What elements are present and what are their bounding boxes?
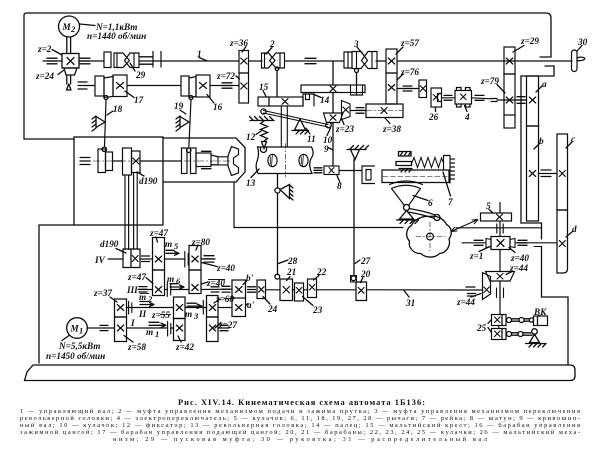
machine frame top-left outline bbox=[24, 13, 551, 139]
svg-text:m: m bbox=[167, 274, 174, 284]
lever 19 pivot hatch bbox=[176, 116, 180, 131]
label z=58 leader bbox=[124, 336, 133, 343]
clutch m3 arrow bbox=[187, 303, 202, 308]
drum c bbox=[557, 134, 568, 210]
collet closer flange left bbox=[182, 148, 188, 174]
label 18 leader bbox=[107, 111, 113, 115]
label 17 leader bbox=[125, 91, 134, 98]
worm right flange bbox=[510, 239, 515, 248]
svg-text:a: a bbox=[542, 79, 547, 89]
label 24 leader bbox=[263, 297, 270, 305]
label z=47 top leader bbox=[156, 237, 158, 242]
gear block z=72 bbox=[239, 73, 249, 103]
lever 18 pivot hatch bbox=[92, 116, 96, 131]
clutch m5 ticks bbox=[185, 252, 188, 268]
wire bar 14 to bevel z=23 bbox=[332, 93, 334, 114]
svg-text:1: 1 bbox=[155, 329, 159, 339]
shaft 2 stub bbox=[87, 85, 95, 87]
drum b cross bbox=[529, 171, 535, 177]
svg-text:I: I bbox=[130, 318, 135, 328]
camshaft between cams 25 bbox=[498, 326, 500, 329]
upper roller bbox=[507, 318, 512, 323]
wires bar 15 to drum bbox=[281, 106, 287, 147]
machine frame inner horizontal bbox=[234, 227, 403, 229]
label 19 leader bbox=[180, 110, 186, 114]
svg-text:z=1: z=1 bbox=[469, 251, 483, 261]
rack 7 centerline bbox=[383, 176, 448, 178]
spindle pulley right bbox=[106, 152, 113, 171]
cam 22 bbox=[308, 279, 317, 298]
roller 28 pin bbox=[275, 274, 280, 279]
rod 8 left bearing bbox=[314, 168, 322, 173]
worm gearbox cross bbox=[67, 58, 74, 65]
clutch 2 shifter pin bbox=[275, 67, 279, 71]
cam 25 upper box bbox=[492, 315, 507, 326]
gear block z=57 bbox=[386, 49, 397, 73]
svg-text:12: 12 bbox=[246, 132, 256, 142]
label m2 overline bbox=[140, 293, 150, 295]
shaft bevel to z=38 bbox=[350, 110, 366, 112]
drum 16 left section bbox=[181, 76, 189, 96]
handle 30 knob bbox=[577, 57, 585, 61]
label d190 upper leader bbox=[137, 172, 144, 176]
shaft 1 into gear z=57 bbox=[376, 60, 386, 62]
bar 14 cross bbox=[330, 86, 336, 92]
shaft II clutch ticks bbox=[129, 302, 132, 315]
label z=80 leader bbox=[196, 245, 198, 250]
gear z=76 cross bbox=[388, 85, 395, 91]
worm left flange bbox=[486, 239, 491, 248]
collet sleeve bbox=[196, 153, 211, 167]
lever 11 arm bbox=[264, 111, 329, 128]
drum 17 left section bbox=[95, 76, 104, 96]
drum 17 middle slanted section bbox=[104, 77, 113, 98]
svg-text:z=38: z=38 bbox=[382, 124, 401, 134]
svg-text:IV: IV bbox=[94, 255, 106, 265]
drum a bbox=[527, 76, 539, 126]
slider bracket bbox=[362, 166, 375, 184]
shaft 2 to gear z=72 bbox=[210, 85, 239, 87]
hanger above bar 14 bbox=[332, 61, 334, 85]
maltese 26 body bbox=[431, 88, 442, 107]
tassel below z=24 bbox=[67, 84, 72, 90]
lever 19 end pin bbox=[187, 148, 191, 152]
label 25 leaders bbox=[488, 320, 492, 333]
drum c cross bbox=[559, 171, 565, 177]
turret stem wire bbox=[233, 182, 235, 228]
rack 7 end cap bbox=[444, 156, 455, 184]
cam 25 lower box bbox=[492, 329, 507, 340]
cam wheel hub bbox=[427, 233, 434, 240]
bevel z=44 left cross bbox=[484, 287, 490, 293]
spline end ticks bbox=[153, 52, 161, 68]
gear block z=55 bbox=[174, 297, 186, 319]
drum d cross bbox=[559, 241, 565, 247]
headstock box bbox=[74, 137, 163, 225]
crank link band bbox=[408, 209, 436, 219]
lever 19 pin bbox=[189, 96, 193, 100]
gear z=79 hub tick bbox=[504, 114, 515, 116]
cam 25 lower divider bbox=[501, 329, 503, 340]
machine frame stub at shaft d bbox=[534, 246, 542, 248]
svg-text:1: 1 bbox=[197, 49, 202, 59]
shaft 31 right bearing bbox=[466, 287, 476, 296]
cam 25 upper cross bbox=[495, 317, 501, 323]
svg-text:3: 3 bbox=[193, 311, 199, 321]
label 10 leader bbox=[327, 128, 331, 136]
label a' leader bbox=[246, 304, 249, 306]
spindle d190 cross bbox=[133, 158, 139, 164]
camshaft to bevel z=44 bbox=[499, 250, 501, 272]
shaft III right bearings bbox=[211, 286, 230, 292]
rod 8 box bbox=[324, 166, 339, 175]
svg-text:ВК: ВК bbox=[533, 307, 547, 317]
rod 8 shaft to slider bbox=[339, 170, 362, 172]
label 6 leader bbox=[413, 196, 428, 201]
svg-text:z=36: z=36 bbox=[229, 38, 248, 48]
lever 19 pivot bbox=[180, 117, 189, 128]
svg-text:z=27: z=27 bbox=[218, 320, 237, 330]
upper link pin bbox=[519, 318, 524, 323]
shaft 31 right end bbox=[464, 289, 483, 291]
cam 5 cross bbox=[497, 214, 503, 220]
bearing marks bbox=[444, 95, 452, 100]
label z=40 leader bbox=[509, 248, 515, 253]
svg-text:z=42: z=42 bbox=[175, 342, 194, 352]
shaft IV left stub bbox=[108, 258, 123, 260]
bearing left of z=2 bbox=[47, 58, 57, 64]
svg-text:z=24: z=24 bbox=[35, 71, 54, 81]
drum d bbox=[557, 210, 568, 273]
gear z=27 cross bbox=[209, 325, 215, 331]
spline shaft after 29 bbox=[139, 57, 161, 64]
bearing double mark bbox=[491, 99, 497, 102]
gear z=40 lower cross bbox=[192, 285, 198, 291]
bearing left of drum 17 bbox=[78, 82, 87, 89]
bearing on shaft IV bbox=[142, 256, 150, 262]
bearing marks right of 4 bbox=[475, 95, 484, 100]
bar 15 divider bbox=[268, 97, 270, 106]
label z=44 upper leader bbox=[506, 272, 512, 275]
shaft b to c bbox=[539, 173, 558, 175]
worm gearbox z=1 z=40 bbox=[491, 237, 510, 250]
svg-text:z=47: z=47 bbox=[149, 228, 168, 238]
drum 21 cross bbox=[283, 287, 290, 294]
gear a' cross bbox=[236, 305, 243, 311]
motor M1 leader bbox=[62, 336, 69, 341]
shaft 1 left stub bbox=[43, 60, 62, 62]
svg-text:b: b bbox=[539, 136, 544, 146]
shaft 2 between drums bbox=[127, 85, 181, 87]
cam 25 upper divider bbox=[501, 315, 503, 326]
bevel z=23 vertical bbox=[342, 101, 351, 120]
svg-text:m: m bbox=[165, 239, 172, 249]
bearing right of b' bbox=[248, 287, 256, 292]
shaft II to z=68 bbox=[185, 307, 207, 309]
wire clutch 2 to bar 15 bbox=[276, 71, 278, 97]
gear block z=80 bbox=[189, 246, 201, 271]
bar 15 cross bbox=[282, 99, 288, 105]
crank support triangle bbox=[351, 150, 360, 160]
lever 19 rod bbox=[189, 100, 191, 148]
shaft 4 to z=79 bbox=[472, 98, 492, 99]
gear z=38 cross bbox=[381, 108, 387, 114]
drum 13 centerline bbox=[285, 144, 287, 178]
pinion gear bbox=[419, 80, 427, 98]
label 12 leader bbox=[256, 131, 261, 135]
rack spring hatch below bbox=[399, 169, 412, 173]
svg-text:18: 18 bbox=[113, 104, 123, 114]
svg-text:1 — управляющий вал; 2 — муфта: 1 — управляющий вал; 2 — муфта управлени… bbox=[20, 408, 580, 415]
label 4 leader bbox=[465, 106, 468, 112]
shaft 31 long segment bbox=[317, 289, 357, 291]
cam 23 bbox=[295, 283, 304, 301]
svg-text:Рис. XIV.14. Кинематическая сх: Рис. XIV.14. Кинематическая схема автома… bbox=[178, 398, 425, 407]
label d leader bbox=[566, 231, 573, 237]
svg-text:z=29: z=29 bbox=[520, 36, 539, 46]
svg-text:z=57: z=57 bbox=[400, 38, 419, 48]
svg-text:4: 4 bbox=[464, 112, 470, 122]
gear block z=58 bbox=[115, 317, 127, 342]
label z=47 left leader bbox=[146, 278, 153, 284]
bevel z=23 horizontal bbox=[324, 113, 344, 123]
label 14 leader bbox=[313, 94, 321, 98]
svg-text:13: 13 bbox=[246, 178, 256, 188]
drum 13 window right shading bbox=[301, 155, 303, 165]
worm gearbox cross bbox=[497, 240, 504, 247]
label z=36 leader bbox=[242, 47, 246, 53]
rack 7 body bbox=[382, 170, 449, 183]
control rod with arrow to wheel bbox=[456, 227, 542, 229]
fixator 12 wall hatch bbox=[250, 117, 275, 121]
svg-text:25: 25 bbox=[476, 323, 487, 333]
clutch m1 arrow bbox=[149, 322, 166, 327]
svg-text:n=1450 об/мин: n=1450 об/мин bbox=[46, 351, 105, 361]
bearing between z=79 and a bbox=[517, 97, 525, 104]
spindle left bearing bbox=[80, 158, 90, 165]
lower roller bbox=[507, 332, 512, 337]
label z=29 leader bbox=[513, 46, 524, 53]
gear block z=37 bbox=[115, 299, 127, 317]
clutch m2 arrow bbox=[140, 302, 154, 307]
gear z=57 cross bbox=[388, 58, 395, 64]
cam 23 cross bbox=[296, 288, 302, 294]
gear z=38 centerline bbox=[367, 110, 402, 112]
shaft II line bbox=[127, 307, 174, 309]
camshaft below bevel bbox=[499, 281, 501, 315]
belt to lower pulley bbox=[125, 173, 137, 250]
shaft 26 to 4 bbox=[442, 97, 456, 99]
switch BK box detail bbox=[537, 316, 539, 326]
rack spring bar bbox=[396, 162, 412, 166]
label z=40 first leader bbox=[202, 263, 218, 267]
svg-text:b': b' bbox=[246, 273, 254, 283]
gear z=36 cross bbox=[241, 58, 247, 64]
shaft I line bbox=[127, 327, 174, 329]
wire clutch 3 to bar 14 bbox=[356, 73, 358, 85]
label 30 leader bbox=[577, 46, 582, 52]
svg-text:n=1440 об/мин: n=1440 об/мин bbox=[87, 31, 146, 41]
svg-text:z=76: z=76 bbox=[400, 67, 419, 77]
crank support hatch bbox=[347, 146, 369, 150]
maltese 26 cross bbox=[433, 95, 438, 101]
lever 18 pivot bbox=[96, 117, 105, 128]
svg-text:z=47: z=47 bbox=[127, 272, 146, 282]
finger bar 14 bbox=[301, 85, 365, 93]
gear z=58 cross bbox=[117, 325, 123, 331]
drum 13 window right bbox=[299, 154, 308, 166]
gear z=68 cross bbox=[209, 305, 215, 311]
sector pivot bbox=[404, 205, 410, 211]
lower pulley divider bbox=[130, 249, 132, 268]
label b leader bbox=[534, 143, 540, 149]
label z=38 leader bbox=[385, 118, 390, 124]
clutch m6 arrow bbox=[170, 284, 184, 289]
shaft I from M1 bbox=[87, 327, 114, 329]
gear z=47 lower cross bbox=[155, 287, 161, 293]
cam 5 bbox=[481, 213, 512, 221]
camshaft coupling ticks bbox=[497, 287, 504, 299]
label 2 leader bbox=[266, 48, 272, 55]
clutch 3 collar bbox=[344, 52, 352, 68]
label 11 leader bbox=[306, 128, 310, 134]
clutch 3 shifter pin bbox=[355, 69, 359, 73]
rack spring bbox=[412, 158, 444, 168]
switch BK roller bbox=[529, 318, 533, 322]
lower link bbox=[512, 333, 533, 335]
worm shaft right to bar d bbox=[515, 242, 557, 244]
shaft III right segment bbox=[201, 288, 232, 290]
machine frame ledge to headstock bbox=[24, 138, 74, 140]
bevel z=44 upper cross bbox=[497, 274, 503, 280]
clutch m6 ticks bbox=[167, 282, 170, 297]
label z=24 leader bbox=[58, 70, 64, 75]
shaft IV between bbox=[165, 258, 185, 260]
svg-text:26: 26 bbox=[428, 112, 439, 122]
collet bars bbox=[218, 157, 228, 165]
svg-text:27: 27 bbox=[360, 256, 371, 266]
gear 24 cross bbox=[259, 287, 265, 293]
rod 8 box cross bbox=[329, 168, 334, 174]
drum pivot circle bbox=[275, 188, 280, 193]
label 27 leader bbox=[355, 260, 360, 264]
cam wheel centerlines bbox=[416, 222, 445, 251]
collet gripper head bbox=[228, 147, 239, 176]
svg-text:30: 30 bbox=[577, 37, 588, 47]
label z=40 second leader bbox=[202, 282, 209, 284]
svg-text:m: m bbox=[146, 327, 153, 337]
handle 30 grip bbox=[572, 50, 578, 72]
gear z=29 cross bbox=[506, 58, 513, 64]
svg-text:5: 5 bbox=[486, 201, 491, 211]
lever pivot support bbox=[526, 334, 547, 347]
svg-text:z=79: z=79 bbox=[480, 76, 499, 86]
drum 16 middle slanted section bbox=[189, 77, 196, 98]
lever 11 pivot hatch bbox=[292, 131, 309, 135]
label z=37 leader bbox=[110, 297, 117, 302]
svg-text:M: M bbox=[70, 324, 80, 334]
worm shaft left bearing bbox=[474, 240, 483, 245]
crank pin bbox=[434, 215, 440, 221]
shaft 1 segment to pulley bbox=[79, 60, 104, 62]
fixator 12 pin bbox=[262, 142, 267, 149]
clutch m1 ticks bbox=[168, 322, 171, 337]
roller 27 holder bbox=[351, 276, 357, 283]
shaft 1 to clutch 2 bbox=[249, 60, 263, 62]
shaft 1 segment to clutch 3 bbox=[285, 60, 345, 62]
label z=79 leader bbox=[497, 85, 505, 94]
bevel z=23 vertical cross bbox=[343, 107, 349, 113]
lever pivot circle bbox=[532, 329, 538, 335]
svg-text:ный вал; 10 — кулачок; 12 — фи: ный вал; 10 — кулачок; 12 — фиксатор; 13… bbox=[20, 422, 580, 429]
label 31 leader bbox=[404, 291, 409, 298]
svg-text:z=80: z=80 bbox=[191, 237, 210, 247]
lever 18 pin bbox=[104, 96, 108, 100]
svg-text:N=5,5кВт: N=5,5кВт bbox=[58, 341, 100, 351]
svg-text:z=40: z=40 bbox=[510, 253, 529, 263]
switch BK box bbox=[534, 316, 548, 326]
camshaft between cam and worm bbox=[499, 222, 501, 237]
lower link pin bbox=[518, 332, 523, 337]
clutch 2 right jaw bbox=[270, 53, 285, 68]
svg-text:d: d bbox=[572, 224, 577, 234]
gear z=72 cross bbox=[241, 83, 247, 89]
label z=1 leader bbox=[479, 247, 490, 252]
gear block z=76 bbox=[386, 73, 397, 104]
label z=23 leader bbox=[342, 120, 344, 125]
shaft 31 segment bbox=[293, 289, 308, 291]
bearing between b and c bbox=[541, 170, 551, 177]
label c leader bbox=[566, 142, 572, 148]
machine base slab bbox=[25, 365, 576, 381]
svg-text:z=40: z=40 bbox=[216, 263, 235, 273]
electroswitch 4 feet bbox=[457, 88, 471, 108]
clutch 2 left jaw bbox=[262, 53, 276, 68]
drum 13 window left shading bbox=[270, 155, 272, 165]
svg-text:z=37: z=37 bbox=[93, 288, 112, 298]
clutch m5 arrow bbox=[166, 250, 179, 255]
cam wheel 1Б136 bbox=[407, 216, 452, 257]
svg-text:23: 23 bbox=[312, 305, 323, 315]
roller 27 pin bbox=[351, 276, 356, 281]
shaft z=76 to pinion bbox=[397, 88, 419, 90]
arrow wheel to cam 5 bbox=[451, 220, 478, 232]
label 21 leader bbox=[287, 277, 291, 281]
svg-text:z=55: z=55 bbox=[151, 310, 170, 320]
shaft 31 to bevel bbox=[367, 289, 465, 291]
shaft IV to gear z=47 bbox=[140, 258, 153, 260]
pulley of clutch 29 bbox=[104, 52, 111, 68]
shaft IV right bearing bbox=[204, 256, 214, 262]
lever 11 pivot bbox=[295, 119, 306, 130]
worm shaft left bbox=[462, 242, 486, 244]
drum 16 cross bbox=[200, 83, 207, 89]
bevel z=44 upper bbox=[486, 272, 515, 282]
svg-text:14: 14 bbox=[320, 95, 330, 105]
svg-text:1: 1 bbox=[79, 326, 83, 336]
svg-text:z=44: z=44 bbox=[456, 297, 475, 307]
svg-text:29: 29 bbox=[135, 70, 146, 80]
turret slide box bbox=[163, 138, 245, 182]
bevel z=44 left bbox=[483, 273, 491, 300]
lower pulley cross bbox=[132, 256, 138, 262]
cam 25 lower cross bbox=[495, 331, 501, 337]
machine frame right outline bbox=[521, 66, 568, 364]
gear block z=27 bbox=[207, 317, 219, 342]
label 28 leader bbox=[279, 260, 289, 264]
gear z=42 cross bbox=[176, 325, 182, 331]
svg-text:z=68: z=68 bbox=[215, 294, 234, 304]
